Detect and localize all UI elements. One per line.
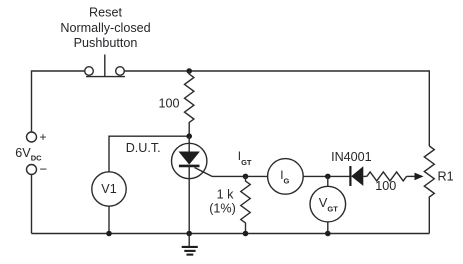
wire VGT stem [327,176,329,186]
potentiometer R1 [424,146,434,234]
wire wiper arrow to R1 [407,173,424,181]
voltmeter VGT [310,186,346,222]
wire gate to IG meter [212,175,268,177]
resistor 100 (horizontal) [367,172,407,181]
node junction V1 bottom [106,231,112,237]
svg-text:V1: V1 [101,182,116,196]
label Reset Normally-closed Pushbutton [60,6,150,51]
diode IN4001 [350,166,366,186]
svg-text:IN4001: IN4001 [331,150,372,164]
wire battery negative to bottom rail [31,175,33,234]
battery V 6VDC terminals [27,132,37,175]
ammeter IG [268,159,304,195]
svg-text:+: + [40,130,47,144]
voltmeter V1 [92,172,126,206]
node junction cathode bottom [186,231,192,237]
wire top-left from battery to pushbutton [32,71,85,132]
svg-text:R1: R1 [438,170,454,184]
resistor 100 (vertical) [185,71,194,136]
pushbutton S1 normally-closed [85,55,125,77]
ground [182,234,198,255]
wire IG to diode [303,175,350,177]
node junction above thyristor [186,133,192,139]
wire V1 bottom to rail [108,206,110,233]
wire bottom rail [32,233,430,235]
svg-text:1 k: 1 k [217,188,235,202]
svg-text:D.U.T.: D.U.T. [126,141,161,155]
node junction top of 100 ohm resistor [186,68,192,74]
node junction 1k bottom [243,231,249,237]
node junction VGT bottom [325,231,331,237]
svg-text:Reset: Reset [89,6,122,20]
resistor 1k 1% (vertical) [241,176,250,233]
svg-text:−: − [40,161,48,176]
svg-text:100: 100 [375,179,396,193]
node junction gate / 1k [243,174,249,180]
svg-text:Pushbutton: Pushbutton [74,36,138,50]
svg-text:Normally-closed: Normally-closed [60,21,150,35]
thyristor D.U.T. (SCR) [172,136,213,233]
node junction VGT tap [325,174,331,180]
wire VGT bottom to rail [327,222,329,234]
svg-text:100: 100 [158,96,179,110]
wire top from pushbutton to right side [124,71,429,146]
wire V1 top connection [109,136,189,172]
svg-text:(1%): (1%) [209,202,236,216]
